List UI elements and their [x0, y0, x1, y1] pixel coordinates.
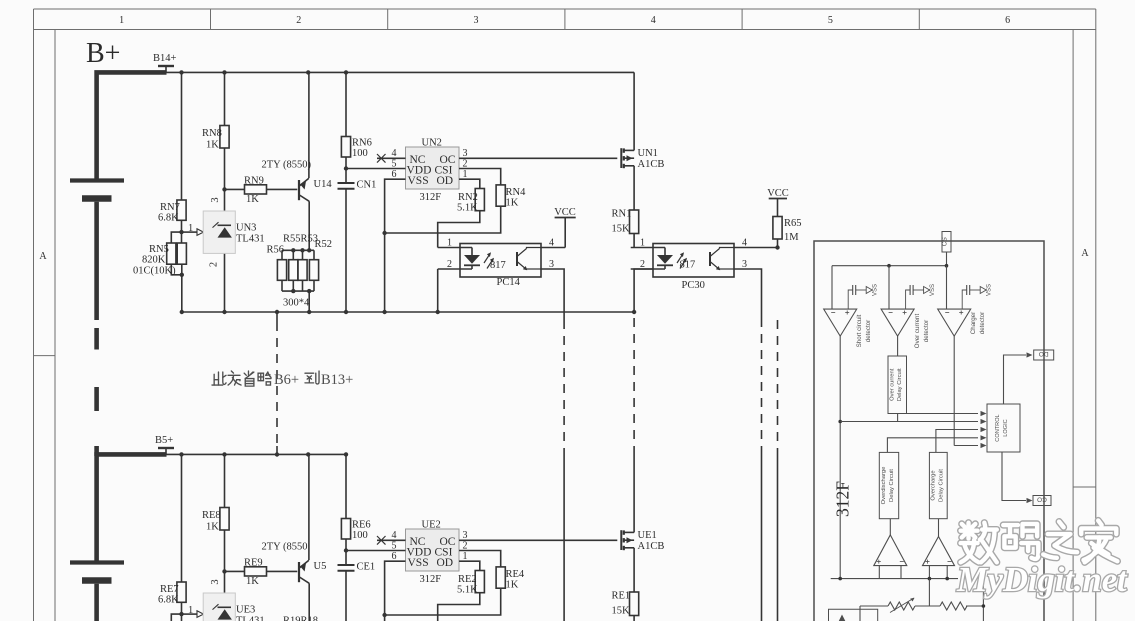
svg-text:R52: R52: [315, 239, 333, 250]
svg-text:4: 4: [651, 15, 656, 26]
control logic: [987, 404, 1020, 452]
svg-text:RE7: RE7: [160, 584, 179, 595]
svg-text:OD: OD: [437, 557, 454, 569]
svg-text:2TY (8550): 2TY (8550): [262, 160, 312, 171]
wire top bus extension to mosfet drain: [346, 71, 634, 73]
comparator charger detector: [938, 309, 971, 336]
svg-text:1: 1: [640, 238, 645, 249]
svg-text:1K: 1K: [246, 576, 259, 587]
svg-text:Delay Circuit: Delay Circuit: [939, 469, 945, 502]
variable resistor: [888, 602, 915, 610]
svg-text:312F: 312F: [833, 481, 853, 517]
svg-text:DO: DO: [1039, 350, 1049, 357]
cell B5 instance: [70, 448, 778, 621]
note omitted cells: [212, 371, 353, 388]
svg-text:Over current: Over current: [890, 368, 896, 401]
svg-text:B+: B+: [86, 38, 120, 69]
svg-text:MyDigit.net: MyDigit.net: [956, 561, 1128, 599]
svg-text:4: 4: [549, 238, 554, 249]
svg-text:3: 3: [210, 579, 221, 584]
comparator overcharge: [938, 519, 940, 537]
IC block diagram 312F outer box: [814, 241, 1044, 621]
svg-text:B5+: B5+: [155, 435, 173, 446]
wire cell link x277 dashed: [276, 312, 278, 322]
overcharge delay circuit: [929, 452, 947, 518]
svg-text:1K: 1K: [506, 580, 519, 591]
svg-text:3: 3: [474, 15, 479, 26]
wire VCC chain x564 dashed: [563, 320, 565, 450]
svg-text:RE6: RE6: [352, 520, 371, 531]
svg-text:312F: 312F: [420, 574, 442, 585]
svg-text:Over current: Over current: [914, 314, 921, 349]
pin DO: [1004, 355, 1027, 404]
svg-text:RN8: RN8: [202, 128, 222, 139]
svg-text:A: A: [1081, 248, 1089, 259]
svg-text:detector: detector: [923, 320, 930, 342]
svg-text:TL431: TL431: [236, 616, 265, 621]
over current delay circuit: [897, 336, 899, 356]
svg-text:100: 100: [352, 530, 368, 541]
svg-text:3: 3: [549, 259, 554, 270]
svg-text:3: 3: [742, 259, 747, 270]
svg-text:Overcharge: Overcharge: [931, 470, 937, 500]
svg-text:RN5: RN5: [149, 244, 169, 255]
svg-text:R19R18: R19R18: [283, 616, 318, 621]
svg-text:3: 3: [210, 197, 221, 202]
svg-text:VSS: VSS: [873, 284, 879, 296]
svg-text:UE2: UE2: [422, 520, 441, 531]
svg-text:2: 2: [296, 15, 301, 26]
svg-text:PC30: PC30: [682, 280, 705, 291]
svg-text:R55R53: R55R53: [283, 234, 318, 245]
svg-text:1: 1: [447, 238, 452, 249]
svg-text:2: 2: [640, 259, 645, 270]
svg-text:R65: R65: [784, 218, 802, 229]
wire detector input bus: [832, 265, 947, 267]
svg-text:820K: 820K: [142, 255, 166, 266]
svg-text:Delay Circuit: Delay Circuit: [889, 469, 895, 502]
overdischarge delay circuit: [879, 452, 898, 518]
resistor R65 1M: [773, 217, 782, 240]
svg-text:RE9: RE9: [244, 558, 263, 569]
svg-text:1M: 1M: [784, 232, 799, 243]
svg-text:U14: U14: [314, 179, 333, 190]
svg-text:A: A: [39, 251, 47, 262]
svg-text:UN1: UN1: [638, 148, 658, 159]
svg-text:2: 2: [463, 540, 468, 551]
svg-text:RN2: RN2: [458, 192, 478, 203]
svg-text:detector: detector: [865, 320, 872, 342]
svg-text:OD: OD: [437, 175, 454, 187]
svg-text:6.8K: 6.8K: [158, 595, 179, 606]
svg-text:2: 2: [447, 259, 452, 270]
svg-text:RE4: RE4: [506, 569, 525, 580]
comparator over current detector: [881, 309, 914, 336]
svg-text:LOGIC: LOGIC: [1003, 419, 1009, 436]
svg-text:4: 4: [742, 238, 747, 249]
svg-text:VSS: VSS: [987, 284, 993, 296]
svg-text:VCC: VCC: [554, 207, 576, 218]
svg-text:2: 2: [209, 262, 220, 267]
svg-text:2: 2: [463, 158, 468, 169]
svg-text:A1CB: A1CB: [638, 159, 665, 170]
svg-text:PC14: PC14: [497, 277, 521, 288]
svg-text:100: 100: [352, 148, 368, 159]
wire bias bus: [831, 578, 958, 580]
comparator overdischarge: [889, 519, 891, 535]
comparator OA3 output: [953, 336, 955, 445]
svg-text:CONTROL: CONTROL: [995, 414, 1001, 441]
svg-text:CS: CS: [942, 237, 949, 247]
svg-text:6.8K: 6.8K: [158, 213, 179, 224]
cell B14 instance: [70, 66, 778, 320]
svg-text:15K: 15K: [612, 224, 631, 235]
svg-text:300*4: 300*4: [283, 298, 310, 309]
svg-text:6: 6: [392, 169, 397, 180]
svg-text:Overdischarge: Overdischarge: [881, 467, 887, 505]
svg-text:Short circuit: Short circuit: [856, 314, 863, 347]
svg-text:1: 1: [188, 605, 193, 616]
svg-text:B13+: B13+: [321, 372, 353, 388]
svg-text:CE1: CE1: [357, 562, 376, 573]
svg-text:UE3: UE3: [236, 605, 255, 616]
resistor block bottom: [940, 602, 967, 610]
watermark: [956, 521, 1128, 600]
power VCC node PC14: [554, 207, 576, 248]
svg-text:1: 1: [463, 551, 468, 562]
svg-text:5: 5: [392, 158, 397, 169]
svg-text:RN1: RN1: [612, 209, 632, 220]
svg-text:817: 817: [490, 260, 506, 271]
svg-text:B14+: B14+: [153, 53, 177, 64]
svg-text:RN9: RN9: [244, 176, 264, 187]
svg-text:312F: 312F: [420, 192, 442, 203]
reference block partial: [829, 609, 878, 621]
svg-text:RN7: RN7: [160, 202, 180, 213]
overcharge delay top wires: [936, 430, 978, 453]
wire PC30 pin3 chain dashed: [761, 318, 763, 452]
wire battery chain dashed: [94, 328, 99, 350]
wire PC30 pin4 chain dashed: [777, 320, 779, 452]
svg-text:RN4: RN4: [506, 187, 527, 198]
svg-text:UN3: UN3: [236, 223, 256, 234]
svg-text:Delay Circuit: Delay Circuit: [897, 368, 903, 401]
svg-text:CN1: CN1: [357, 180, 377, 191]
svg-text:6: 6: [1005, 15, 1010, 26]
svg-text:1K: 1K: [206, 522, 219, 533]
svg-text:1: 1: [463, 169, 468, 180]
svg-text:Charger: Charger: [970, 312, 977, 334]
pin CS: [942, 232, 951, 253]
svg-text:01C(10K): 01C(10K): [133, 266, 176, 277]
svg-text:R56: R56: [267, 245, 285, 256]
svg-text:1K: 1K: [206, 140, 219, 151]
svg-text:A1CB: A1CB: [638, 541, 665, 552]
svg-text:UE1: UE1: [638, 530, 657, 541]
svg-text:VCC: VCC: [767, 188, 789, 199]
svg-text:5: 5: [392, 540, 397, 551]
svg-text:U5: U5: [314, 561, 327, 572]
svg-text:RE1: RE1: [612, 591, 631, 602]
svg-text:VSS: VSS: [930, 284, 936, 296]
wire OA1 output: [839, 336, 841, 578]
wire drain chain x634 dashed: [633, 318, 635, 449]
svg-text:5.1K: 5.1K: [457, 585, 478, 596]
svg-text:5: 5: [828, 15, 833, 26]
svg-text:1K: 1K: [246, 194, 259, 205]
comparator short circuit detector: [824, 309, 857, 336]
pin CO: [1002, 452, 1026, 501]
svg-text:RE2: RE2: [458, 574, 477, 585]
svg-text:6: 6: [392, 551, 397, 562]
svg-text:CO: CO: [1037, 496, 1047, 503]
svg-text:detector: detector: [979, 312, 986, 334]
svg-text:1: 1: [119, 15, 124, 26]
svg-text:5.1K: 5.1K: [457, 203, 478, 214]
svg-text:2TY (8550: 2TY (8550: [262, 542, 308, 553]
svg-text:VSS: VSS: [408, 175, 429, 187]
svg-text:B6+: B6+: [274, 372, 299, 388]
svg-text:RN6: RN6: [352, 138, 372, 149]
svg-text:VSS: VSS: [408, 557, 429, 569]
svg-text:TL431: TL431: [236, 234, 265, 245]
svg-text:15K: 15K: [612, 606, 631, 617]
svg-text:RE8: RE8: [202, 510, 221, 521]
svg-text:UN2: UN2: [422, 138, 442, 149]
power VCC node R65: [767, 188, 789, 217]
svg-text:1: 1: [188, 223, 193, 234]
svg-text:817: 817: [680, 260, 696, 271]
svg-text:1K: 1K: [506, 198, 519, 209]
